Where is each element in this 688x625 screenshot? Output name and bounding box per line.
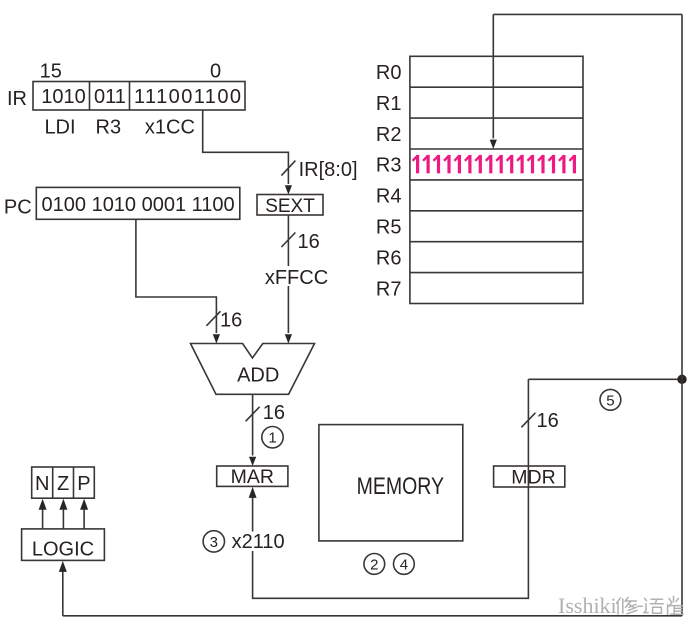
- svg-text:LOGIC: LOGIC: [32, 539, 94, 561]
- wire LOGIC to P: [80, 499, 88, 529]
- wire IR to SEXT: [203, 110, 292, 195]
- svg-text:N: N: [35, 473, 49, 495]
- wire PC to ADD: [136, 219, 220, 343]
- svg-text:R0: R0: [376, 62, 402, 84]
- svg-text:16: 16: [537, 410, 559, 432]
- bus width slash 16 (ALU output): [246, 407, 260, 422]
- SEXT box U-SEXT: [257, 195, 323, 216]
- svg-text:R2: R2: [376, 124, 402, 146]
- svg-text:16: 16: [298, 231, 320, 253]
- step circle 4: [394, 554, 415, 575]
- svg-text:15: 15: [40, 60, 62, 82]
- wire top rail horizontal: [493, 13, 682, 15]
- svg-text:1: 1: [268, 430, 276, 447]
- svg-text:5: 5: [606, 392, 614, 409]
- step circle 5: [600, 389, 621, 410]
- svg-text:0100 1010 0001 1100: 0100 1010 0001 1100: [42, 194, 235, 216]
- svg-text:2: 2: [370, 556, 378, 573]
- wire write-back into R3: [490, 14, 497, 149]
- svg-text:Isshiki: Isshiki: [558, 593, 617, 618]
- value label x2110: [228, 531, 288, 553]
- svg-text:1010: 1010: [41, 86, 86, 108]
- condition code NZP box: [32, 467, 95, 498]
- step circle 1: [262, 427, 283, 448]
- MEMORY box: [319, 425, 463, 541]
- svg-text:16: 16: [263, 402, 285, 424]
- wire MDR up to junction: [527, 379, 529, 487]
- ALU ADD: [191, 344, 315, 395]
- svg-text:IR[8:0]: IR[8:0]: [299, 159, 358, 181]
- svg-text:011: 011: [94, 86, 126, 108]
- svg-text:R5: R5: [376, 217, 402, 239]
- svg-text:0: 0: [210, 61, 221, 83]
- wire ADD to MAR: [249, 394, 256, 466]
- svg-text:x1CC: x1CC: [145, 117, 195, 139]
- bus width slash 16 (SEXT output): [281, 233, 295, 248]
- register MDR box: [494, 466, 565, 487]
- svg-text:R6: R6: [376, 247, 402, 269]
- svg-text:xFFCC: xFFCC: [265, 267, 328, 289]
- bus width slash 16 (MDR output): [521, 413, 535, 428]
- wire junction horizontal to right rail: [528, 378, 682, 380]
- svg-text:4: 4: [400, 556, 408, 573]
- step circle 2: [364, 554, 385, 575]
- svg-text:MAR: MAR: [231, 466, 274, 488]
- LOGIC box: [22, 529, 105, 561]
- wire SEXT to ADD: [285, 215, 292, 344]
- watermark CJK yu: [644, 598, 663, 613]
- wire right rail vertical: [681, 14, 683, 615]
- bus width slash IR[8:0]: [281, 161, 295, 176]
- watermark CJK que: [668, 596, 684, 614]
- wire LOGIC to Z: [59, 499, 67, 529]
- watermark CJK xiu: [617, 598, 638, 615]
- svg-text:x2110: x2110: [232, 531, 285, 553]
- svg-text:IR: IR: [7, 88, 27, 110]
- svg-text:LDI: LDI: [44, 117, 75, 139]
- step circle 3: [203, 531, 224, 552]
- svg-text:16: 16: [220, 310, 242, 332]
- svg-text:MEMORY: MEMORY: [357, 472, 445, 499]
- svg-text:P: P: [77, 473, 90, 495]
- watermark hyphen: [638, 605, 642, 607]
- register MAR box: [217, 466, 288, 486]
- wire bottom rail horizontal: [63, 615, 682, 617]
- svg-text:111001100: 111001100: [134, 86, 241, 108]
- svg-text:3: 3: [210, 534, 218, 551]
- bus width slash 16 (PC output): [206, 311, 220, 326]
- svg-text:R3: R3: [376, 155, 402, 177]
- svg-text:R7: R7: [376, 278, 402, 300]
- value label xFFCC: [263, 266, 330, 289]
- svg-text:ADD: ADD: [237, 365, 279, 387]
- svg-text:Z: Z: [57, 473, 69, 495]
- wire MDR to MAR: [249, 487, 529, 598]
- svg-text:MDR: MDR: [511, 467, 555, 489]
- junction dot: [677, 375, 686, 384]
- register IR box: [33, 82, 245, 111]
- svg-text:SEXT: SEXT: [265, 196, 315, 217]
- wire bottom rail to LOGIC: [59, 561, 67, 616]
- svg-text:R1: R1: [376, 93, 402, 115]
- R3 contents 1111111111111111: [413, 155, 575, 173]
- wire LOGIC to N: [39, 499, 47, 529]
- register PC box: [36, 187, 240, 219]
- register file box: [410, 56, 583, 303]
- svg-text:R4: R4: [376, 186, 402, 208]
- svg-text:R3: R3: [96, 117, 122, 139]
- svg-text:PC: PC: [4, 197, 32, 219]
